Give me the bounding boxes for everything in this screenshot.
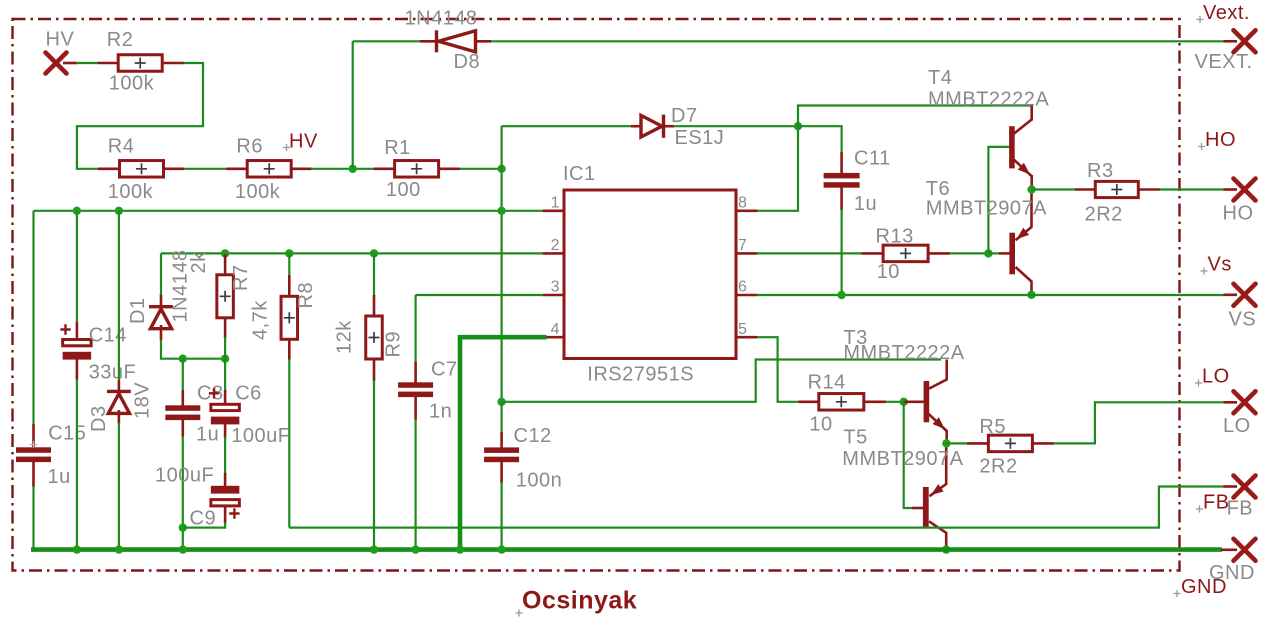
wire node up to T4 collector [798,106,1032,127]
wire R6 to R1 [311,168,375,170]
port GND [1221,548,1237,551]
node C11 on Vs [837,291,845,299]
svg-text:7: 7 [738,237,747,254]
pin 6 of IC1 [735,294,758,297]
svg-text:VS: VS [1229,309,1257,331]
svg-text:MMBT2222A: MMBT2222A [928,89,1049,111]
wire pin3 rail [416,294,543,296]
node C8/C9 join [179,523,187,531]
svg-text:1: 1 [551,195,560,212]
wire C6 to C9 [224,437,226,474]
svg-text:R3: R3 [1087,160,1114,182]
svg-text:C7: C7 [431,359,458,381]
wire C14 bottom to gnd bus [76,379,78,550]
wire LO node to R5 [946,442,967,444]
wire to diode D8 [353,40,421,42]
capacitor C12 100n [500,432,503,448]
wire C7 bottom to gnd bus [415,419,417,550]
zener diode D3 18V [118,380,121,393]
port VEXT [1224,40,1238,43]
wire C7 top [415,295,417,363]
svg-text:D1: D1 [127,297,149,324]
svg-text:4: 4 [551,321,560,338]
port LO [1224,401,1238,404]
svg-text:MMBT2907A: MMBT2907A [926,198,1047,220]
node gnd R9 [370,545,378,553]
wire C11 bottom to Vs rail [840,209,842,295]
node D7 out [794,122,802,130]
svg-text:T5: T5 [843,426,867,448]
wire R5 to LO port [1054,402,1225,443]
wire C6 top [224,359,226,391]
node vcc D3 [115,207,123,215]
wire C14 top [76,211,78,323]
wire base node to T6 base [988,252,1000,254]
pin 7 of IC1 [735,252,758,255]
resistor R1 [374,168,395,171]
svg-text:R1: R1 [384,137,411,159]
wire base node to T5 base [904,402,913,508]
svg-text:D3: D3 [88,405,110,432]
svg-text:HO: HO [1223,203,1254,225]
svg-text:100uF: 100uF [231,425,290,447]
node T4/T6 base [984,249,992,257]
svg-text:8: 8 [738,195,747,212]
svg-text:T4: T4 [928,67,952,89]
node HO out [1027,185,1035,193]
svg-text:HV: HV [289,130,318,152]
diode D1 1N4148 [160,295,163,308]
svg-text:18V: 18V [132,382,154,419]
svg-text:LO: LO [1223,415,1251,437]
wire C12 bottom to gnd bus [501,482,503,550]
IC IC1 IRS27951S [564,190,736,359]
resistor R6 [227,168,248,171]
svg-text:R9: R9 [383,331,405,358]
svg-text:R14: R14 [808,372,846,394]
svg-text:FB: FB [1227,498,1254,520]
svg-text:1u: 1u [854,193,877,215]
svg-text:1n: 1n [429,401,452,423]
svg-text:1u: 1u [48,466,71,488]
node gnd pin4 [456,545,464,553]
wire R8 bottom to FB rail [288,359,290,528]
pin 8 of IC1 [735,210,758,213]
node T6 collector on Vs [1027,291,1035,299]
wire D3 bottom to gnd bus [118,423,120,550]
wire C8 top [182,359,184,391]
transistor T6 MMBT2907A [1009,233,1015,275]
svg-text:2R2: 2R2 [1085,204,1123,226]
wire R3 to HO port [1160,188,1225,190]
svg-text:MMBT2907A: MMBT2907A [842,448,963,470]
svg-text:Vs: Vs [1208,254,1232,276]
svg-text:ES1J: ES1J [675,127,725,149]
capacitor C8 1u [182,390,185,406]
wire HO node to R3 [1032,188,1076,190]
svg-text:R7: R7 [230,264,252,291]
capacitor C6 100uF (polarized) [224,390,227,404]
wire vcc rail pin1 [34,210,544,212]
wire FB rail [289,487,1224,528]
wire D8 vertical branch [352,41,354,169]
svg-text:10: 10 [809,414,832,436]
resistor R13 10 [862,252,884,255]
capacitor C14 (polarized) [76,322,79,340]
wire C15 top [32,211,34,425]
svg-text:C9: C9 [190,508,217,530]
wire C11 branch [798,126,842,153]
svg-text:100uF: 100uF [155,465,214,487]
wire R14 to base node [886,401,904,403]
wire D3 top [118,211,120,381]
wire node down to pin8 [757,126,799,211]
svg-text:C12: C12 [514,425,552,447]
svg-text:2k: 2k [188,251,210,274]
wire D1 top [160,253,162,296]
wire base node to T4 base [988,147,1009,254]
svg-text:IC1: IC1 [563,163,596,185]
wire R2 to R4 [77,63,203,169]
resistor R5 2R2 [967,442,989,445]
svg-text:C15: C15 [48,423,86,445]
svg-text:2: 2 [551,237,560,254]
svg-text:3: 3 [551,279,560,296]
svg-text:R4: R4 [108,136,135,158]
pin 5 of IC1 [735,336,758,339]
svg-text:10: 10 [877,261,900,283]
wire pin5 to R14 [757,337,799,402]
svg-text:C11: C11 [854,148,891,170]
wire C15 bottom to gnd bus [32,486,34,550]
wire C8 bottom [182,436,184,550]
wire HV to R2 [76,62,98,64]
svg-text:100k: 100k [235,181,281,203]
node C12 [497,398,505,406]
svg-text:C14: C14 [89,325,127,347]
svg-text:FB: FB [1203,492,1230,514]
node C6 top [221,355,229,363]
pin 2 of IC1 [543,252,566,255]
node gnd C8 [179,545,187,553]
node R9 top [370,249,378,257]
transistor T3 MMBT2222A [924,381,930,422]
svg-text:R5: R5 [979,416,1006,438]
port HV [46,53,67,74]
wire R4 to R6 [184,168,227,170]
svg-text:LO: LO [1202,366,1230,388]
wire D1 bottom [161,340,225,359]
capacitor C9 100uF (polarized) [224,473,227,487]
svg-text:100k: 100k [109,73,155,95]
svg-text:100: 100 [386,179,421,201]
svg-text:HV: HV [46,29,75,51]
svg-text:1u: 1u [196,424,219,446]
svg-text:2R2: 2R2 [979,456,1017,478]
resistor R7 2k [224,254,227,275]
svg-text:GND: GND [1181,576,1227,598]
svg-text:5: 5 [738,321,747,338]
svg-text:R8: R8 [295,282,317,309]
svg-text:R13: R13 [876,226,914,248]
wire R9 bottom to gnd bus [373,380,375,550]
transistor T4 MMBT2222A [1009,126,1015,168]
transistor T5 MMBT2907A [923,487,929,527]
node vcc vertical [497,207,505,215]
resistor R9 12k [373,253,375,296]
wire Vs rail [757,294,1225,296]
svg-text:4,7k: 4,7k [249,300,271,340]
pin 3 of IC1 [543,294,566,297]
svg-text:HO: HO [1205,129,1236,151]
svg-text:6: 6 [738,279,747,296]
wire to diode D7 [502,125,632,127]
node gnd C14 [73,545,81,553]
svg-text:IRS27951S: IRS27951S [587,364,694,386]
svg-text:MMBT2222A: MMBT2222A [843,342,964,364]
node gnd D3 [115,545,123,553]
wire vcc vertical [501,126,503,402]
wire pin2 rail [161,252,543,254]
svg-text:C6: C6 [235,383,262,405]
wire C12 top [501,402,503,433]
capacitor C11 1u [840,152,843,174]
node vcc C14 [73,207,81,215]
svg-text:100n: 100n [516,470,563,492]
wire GND bus (thick) [31,547,1222,552]
wire C9 bottom to join node [183,522,225,528]
pin 4 of IC1 [546,336,565,339]
wire C12 node to T3 collector [502,360,941,402]
node at R1 left / D8 branch [349,165,357,173]
node C8 top [179,355,187,363]
node R7 top [221,249,229,257]
node T5 collector on gnd [942,545,950,553]
node R1 right [497,165,505,173]
port VS [1224,293,1238,296]
resistor R4 [98,168,120,171]
svg-text:D7: D7 [671,105,698,127]
pin 1 of IC1 [543,210,566,213]
wire pin4 thick to gnd [460,337,547,549]
wire pin7 to R13 [757,252,862,254]
wire D8 to Vext port [491,40,1225,42]
svg-text:100k: 100k [108,181,154,203]
diode D8 1N4148 [420,40,437,43]
node gnd C12 [497,545,505,553]
node gnd C7 [411,545,419,553]
svg-text:D8: D8 [454,51,481,73]
svg-text:VEXT.: VEXT. [1195,51,1253,73]
resistor R14 10 [799,400,819,403]
svg-text:R6: R6 [236,136,263,158]
resistor R8 4,7k [288,253,290,276]
diode D7 ES1J [631,125,642,128]
wire R1 to vertical node [460,168,502,170]
svg-text:33uF: 33uF [89,362,137,384]
svg-text:R2: R2 [107,29,134,51]
svg-text:Vext.: Vext. [1203,2,1250,24]
resistor R3 2R2 [1075,188,1096,191]
node R8 top [285,249,293,257]
port HO [1224,188,1238,191]
svg-text:12k: 12k [333,320,355,354]
node T3/T5 base [900,398,908,406]
wire D7 to C11/T4 node [674,125,798,127]
resistor R2 [98,62,119,65]
node LO out [942,439,950,447]
wire R7 bottom [224,337,226,359]
wire R13 to base node [950,252,989,254]
capacitor C15 [32,424,35,448]
svg-text:Ocsinyak: Ocsinyak [522,587,637,615]
capacitor C7 1n [414,362,417,383]
svg-text:1N4148: 1N4148 [405,8,478,30]
port FB [1224,485,1238,488]
